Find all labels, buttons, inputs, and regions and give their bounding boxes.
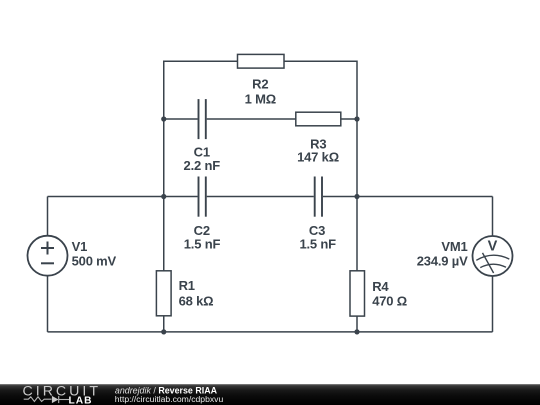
capacitor C1 right plate xyxy=(205,99,207,139)
capacitor C3 left plate xyxy=(314,177,316,217)
junction dot row2 left xyxy=(161,116,166,121)
wire row3 right segment C3 to VM1 rail xyxy=(323,196,493,198)
wire row2 segment C1 to R3 and to right rail xyxy=(207,118,357,120)
junction dot row3 right xyxy=(354,194,359,199)
voltmeter VM1 body xyxy=(473,236,513,276)
svg-text:234.9 µV: 234.9 µV xyxy=(417,253,468,268)
wire middle-left vertical through R1 xyxy=(163,197,165,332)
capacitor C1 left plate xyxy=(198,99,200,139)
junction dot row3 left xyxy=(161,194,166,199)
svg-text:2.2 nF: 2.2 nF xyxy=(184,158,221,173)
svg-text:R2: R2 xyxy=(252,76,268,91)
svg-text:R1: R1 xyxy=(179,278,195,293)
svg-text:147 kΩ: 147 kΩ xyxy=(297,149,339,164)
resistor R1 body xyxy=(156,271,171,316)
svg-text:R4: R4 xyxy=(372,279,389,294)
svg-text:VM1: VM1 xyxy=(441,239,467,254)
capacitor C2 right plate xyxy=(205,177,207,217)
wire right rail above VM1 xyxy=(492,197,494,237)
footer logo resistor zigzag and diode xyxy=(24,396,69,403)
svg-text:500 mV: 500 mV xyxy=(72,253,117,268)
svg-text:1.5 nF: 1.5 nF xyxy=(299,236,336,251)
footer bar xyxy=(0,384,540,405)
wire bottom rail xyxy=(48,331,493,333)
junction dot bottom left xyxy=(161,329,166,334)
svg-text:68 kΩ: 68 kΩ xyxy=(179,294,214,309)
resistor R3 body xyxy=(296,112,341,126)
wire right rail below VM1 xyxy=(492,276,494,332)
svg-text:470 Ω: 470 Ω xyxy=(372,294,407,309)
wire right vertical of upper loop xyxy=(356,61,358,197)
svg-text:http://circuitlab.com/cdpbxvu: http://circuitlab.com/cdpbxvu xyxy=(115,394,224,404)
svg-text:V1: V1 xyxy=(72,239,88,254)
wire row3 left segment V1 to C2 xyxy=(48,196,198,198)
wire top row (node between R2 terminals) xyxy=(164,60,357,62)
capacitor C3 right plate xyxy=(321,177,323,217)
wire left rail below V1 xyxy=(47,276,49,332)
wire left rail above V1 xyxy=(47,197,49,236)
capacitor C2 left plate xyxy=(198,177,200,217)
wire row2 left segment to C1 xyxy=(164,118,198,120)
svg-text:1.5 nF: 1.5 nF xyxy=(184,236,221,251)
resistor R4 body xyxy=(350,271,365,316)
resistor R2 body xyxy=(238,54,285,68)
svg-text:1 MΩ: 1 MΩ xyxy=(245,91,276,106)
junction dot bottom right xyxy=(354,329,359,334)
voltage source V1 body xyxy=(28,236,68,276)
svg-text:LAB: LAB xyxy=(69,395,93,405)
wire row3 middle segment C2 to C3 xyxy=(207,196,314,198)
wire left vertical of upper loop xyxy=(163,61,165,197)
junction dot row2 right xyxy=(354,116,359,121)
svg-text:V: V xyxy=(488,238,498,254)
wire middle-right vertical through R4 xyxy=(356,197,358,332)
